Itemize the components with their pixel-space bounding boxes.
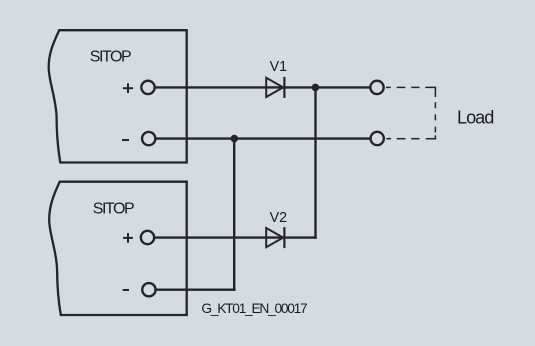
node A junction dot (plus rail) xyxy=(312,84,320,92)
node B junction dot (minus rail) xyxy=(231,135,239,143)
wire U2+ to diode V2 anode xyxy=(154,236,317,238)
power supply box U2 (bottom SITOP, torn left edge) xyxy=(49,182,187,315)
svg-text:SITOP: SITOP xyxy=(90,49,131,66)
dashed wire Load+ to load box xyxy=(386,87,435,97)
terminal circle U2+ xyxy=(141,231,154,244)
svg-text:G_KT01_EN_00017: G_KT01_EN_00017 xyxy=(201,301,307,316)
diode V1 xyxy=(266,77,284,98)
terminal circle U2- xyxy=(142,283,155,296)
wire U2- to vertical riser xyxy=(156,289,236,291)
label - (U2 minus pin) xyxy=(123,289,129,291)
terminal circle U1+ xyxy=(141,81,154,94)
svg-text:V1: V1 xyxy=(270,59,288,75)
terminal circle U1- xyxy=(142,132,155,145)
terminal circle Load+ xyxy=(370,81,383,94)
terminal circle Load- xyxy=(371,132,384,145)
wire vertical from node A down to V2 output corner xyxy=(314,87,316,238)
dashed wire Load- to load box xyxy=(386,135,435,139)
wire U1- to Load- terminal xyxy=(155,137,370,139)
dashed wire vertical load side xyxy=(434,102,436,132)
svg-text:Load: Load xyxy=(457,107,493,127)
wire vertical from node B down to U2- wire xyxy=(233,139,235,291)
diode V2 xyxy=(266,227,284,248)
svg-text:SITOP: SITOP xyxy=(93,201,134,218)
power supply box U1 (top SITOP, torn left edge) xyxy=(49,30,187,162)
svg-text:V2: V2 xyxy=(270,210,288,226)
label + (U1 plus pin) xyxy=(123,83,133,93)
wire U1+ to diode V1 anode xyxy=(155,86,371,88)
label + (U2 plus pin) xyxy=(123,233,133,243)
label - (U1 minus pin) xyxy=(122,139,129,141)
